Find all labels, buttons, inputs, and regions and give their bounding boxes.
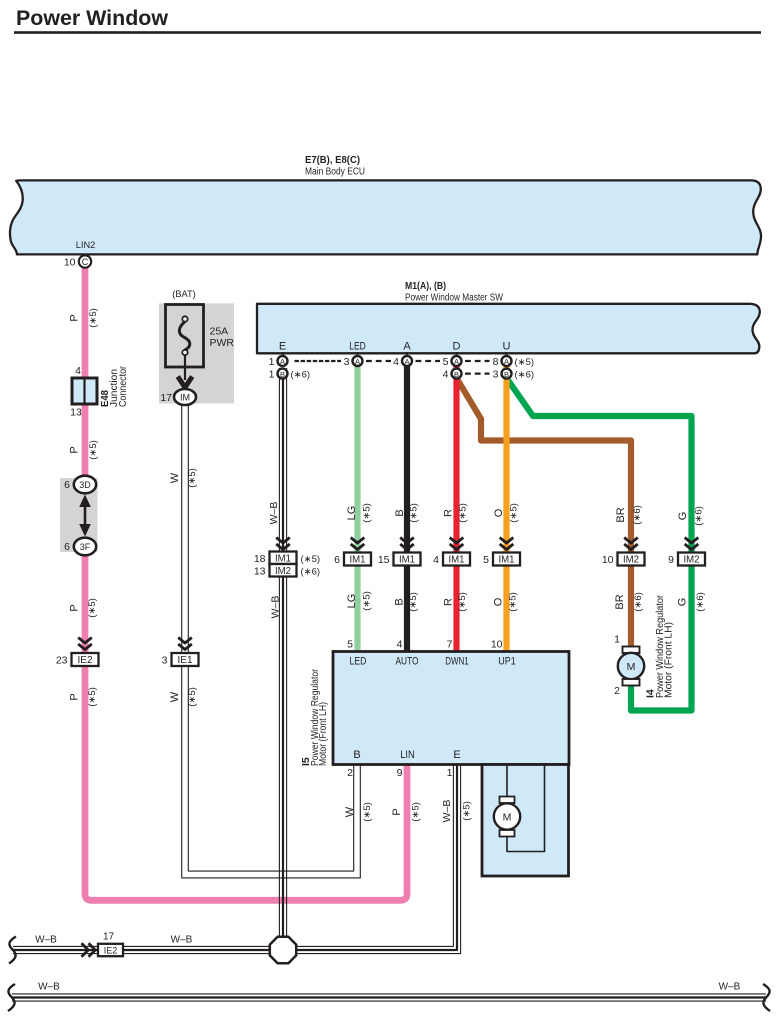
svg-text:4: 4 <box>75 365 81 377</box>
svg-text:A: A <box>504 357 509 366</box>
svg-text:W–B: W–B <box>270 596 282 619</box>
svg-text:(BAT): (BAT) <box>172 289 196 300</box>
svg-text:R: R <box>443 598 455 606</box>
svg-text:4: 4 <box>433 554 439 566</box>
svg-text:Main Body ECU: Main Body ECU <box>305 167 365 178</box>
svg-text:B: B <box>353 749 360 761</box>
svg-text:W–B: W–B <box>171 935 193 946</box>
svg-text:W–B: W–B <box>441 800 453 823</box>
svg-text:BR: BR <box>615 507 627 522</box>
svg-text:IM2: IM2 <box>684 555 700 566</box>
svg-text:17: 17 <box>103 932 115 943</box>
svg-text:(∗5): (∗5) <box>458 503 469 523</box>
svg-text:(∗5): (∗5) <box>409 503 420 523</box>
svg-text:LED: LED <box>349 341 366 353</box>
svg-text:M: M <box>503 811 512 823</box>
svg-text:(∗5): (∗5) <box>515 357 535 368</box>
svg-text:(∗6): (∗6) <box>695 592 706 612</box>
svg-text:P: P <box>69 693 81 700</box>
svg-text:1: 1 <box>614 634 620 646</box>
svg-text:(∗5): (∗5) <box>457 592 468 612</box>
svg-text:IM1: IM1 <box>275 553 291 564</box>
svg-text:3F: 3F <box>80 542 91 552</box>
svg-text:A: A <box>403 341 411 353</box>
svg-text:10: 10 <box>602 554 614 566</box>
svg-text:10: 10 <box>491 639 503 651</box>
svg-text:P: P <box>69 446 81 453</box>
svg-text:(∗5): (∗5) <box>362 802 373 822</box>
svg-text:5: 5 <box>443 356 449 368</box>
svg-text:18: 18 <box>254 553 266 565</box>
svg-text:(∗6): (∗6) <box>301 566 321 577</box>
svg-text:W–B: W–B <box>35 935 57 946</box>
svg-text:E: E <box>453 749 460 761</box>
svg-text:IM: IM <box>180 393 190 403</box>
svg-text:(∗5): (∗5) <box>87 687 98 707</box>
svg-text:4: 4 <box>443 368 449 380</box>
svg-text:8: 8 <box>493 356 499 368</box>
svg-text:(∗5): (∗5) <box>187 687 198 707</box>
svg-text:(∗6): (∗6) <box>694 506 705 526</box>
svg-text:M: M <box>627 661 636 673</box>
svg-text:6: 6 <box>64 479 70 491</box>
svg-text:3D: 3D <box>79 480 91 490</box>
svg-text:U: U <box>503 341 511 353</box>
svg-text:IM1: IM1 <box>499 555 515 566</box>
svg-text:13: 13 <box>70 407 82 419</box>
svg-text:G: G <box>677 598 689 607</box>
svg-text:IM1: IM1 <box>350 555 366 566</box>
svg-text:9: 9 <box>668 554 674 566</box>
svg-text:M1(A), (B): M1(A), (B) <box>405 281 446 292</box>
svg-text:AUTO: AUTO <box>396 655 419 667</box>
svg-text:2: 2 <box>614 685 620 697</box>
svg-text:W–B: W–B <box>719 982 741 993</box>
svg-text:C: C <box>82 257 89 267</box>
svg-text:23: 23 <box>56 655 68 667</box>
svg-text:(∗5): (∗5) <box>88 308 99 328</box>
svg-text:(∗6): (∗6) <box>632 505 643 525</box>
svg-text:5: 5 <box>347 639 353 651</box>
svg-text:(∗6): (∗6) <box>515 369 535 380</box>
svg-text:(∗6): (∗6) <box>291 369 311 380</box>
svg-text:LIN2: LIN2 <box>76 240 96 251</box>
svg-text:A: A <box>355 357 360 366</box>
svg-text:O: O <box>493 508 505 517</box>
svg-text:LG: LG <box>346 506 358 521</box>
svg-text:IE1: IE1 <box>178 655 193 666</box>
svg-text:3: 3 <box>493 368 499 380</box>
svg-text:IM1: IM1 <box>399 555 415 566</box>
svg-text:7: 7 <box>447 639 453 651</box>
svg-text:(∗6): (∗6) <box>633 592 644 612</box>
svg-text:R: R <box>443 509 455 517</box>
svg-text:(∗5): (∗5) <box>408 592 419 612</box>
svg-text:1: 1 <box>447 767 453 779</box>
svg-text:P: P <box>69 314 81 321</box>
svg-text:3: 3 <box>162 655 168 667</box>
svg-text:LG: LG <box>346 594 358 609</box>
svg-text:(∗5): (∗5) <box>462 801 473 821</box>
svg-text:4: 4 <box>397 639 403 651</box>
svg-text:Motor (Front LH): Motor (Front LH) <box>318 702 329 766</box>
svg-text:(∗5): (∗5) <box>301 554 321 565</box>
svg-text:(∗5): (∗5) <box>362 503 373 523</box>
svg-text:IM2: IM2 <box>275 566 291 577</box>
svg-text:(∗5): (∗5) <box>362 591 373 611</box>
svg-text:E7(B), E8(C): E7(B), E8(C) <box>305 155 360 166</box>
svg-text:W: W <box>344 806 356 817</box>
svg-text:2: 2 <box>347 767 353 779</box>
svg-text:(∗5): (∗5) <box>88 440 99 460</box>
svg-text:W–B: W–B <box>268 502 280 525</box>
svg-text:9: 9 <box>397 767 403 779</box>
svg-text:A: A <box>404 357 409 366</box>
svg-text:Motor (Front LH): Motor (Front LH) <box>663 622 674 698</box>
svg-text:O: O <box>493 597 505 606</box>
svg-text:W–B: W–B <box>38 982 60 993</box>
svg-text:IE2: IE2 <box>78 655 93 666</box>
svg-text:5: 5 <box>483 554 489 566</box>
svg-text:LED: LED <box>350 655 367 667</box>
svg-text:3: 3 <box>344 356 350 368</box>
svg-text:(∗5): (∗5) <box>508 592 519 612</box>
svg-text:W: W <box>169 691 181 702</box>
svg-text:LIN: LIN <box>400 749 415 761</box>
svg-text:13: 13 <box>254 565 266 577</box>
svg-text:1: 1 <box>269 356 275 368</box>
svg-text:B: B <box>454 370 459 379</box>
svg-text:PWR: PWR <box>210 337 235 349</box>
svg-text:B: B <box>280 370 285 379</box>
svg-text:B: B <box>504 370 509 379</box>
svg-text:1: 1 <box>269 368 275 380</box>
svg-text:P: P <box>69 604 81 611</box>
svg-text:Power Window: Power Window <box>16 6 168 30</box>
svg-text:4: 4 <box>393 356 399 368</box>
svg-text:UP1: UP1 <box>498 655 516 667</box>
svg-text:G: G <box>677 512 689 521</box>
svg-text:P: P <box>391 808 403 815</box>
svg-text:25A: 25A <box>210 325 229 337</box>
svg-text:E: E <box>279 341 286 353</box>
svg-text:B: B <box>394 598 406 605</box>
svg-text:BR: BR <box>614 594 626 609</box>
svg-text:A: A <box>280 357 285 366</box>
svg-text:D: D <box>453 341 461 353</box>
svg-text:(∗5): (∗5) <box>509 503 520 523</box>
svg-text:Power Window Master SW: Power Window Master SW <box>405 293 503 304</box>
svg-text:DWN1: DWN1 <box>445 655 469 667</box>
svg-text:17: 17 <box>160 392 172 404</box>
svg-text:(∗5): (∗5) <box>87 598 98 618</box>
svg-text:6: 6 <box>334 554 340 566</box>
svg-text:B: B <box>394 509 406 516</box>
svg-text:Connector: Connector <box>118 365 129 407</box>
svg-text:IM2: IM2 <box>623 555 639 566</box>
svg-text:(∗5): (∗5) <box>411 802 422 822</box>
svg-text:IE2: IE2 <box>104 945 118 955</box>
svg-text:10: 10 <box>64 257 76 269</box>
svg-text:15: 15 <box>378 554 390 566</box>
svg-text:(∗5): (∗5) <box>187 468 198 488</box>
svg-text:IM1: IM1 <box>449 555 465 566</box>
svg-text:6: 6 <box>64 541 70 553</box>
svg-text:A: A <box>454 357 459 366</box>
svg-text:W: W <box>169 472 181 483</box>
